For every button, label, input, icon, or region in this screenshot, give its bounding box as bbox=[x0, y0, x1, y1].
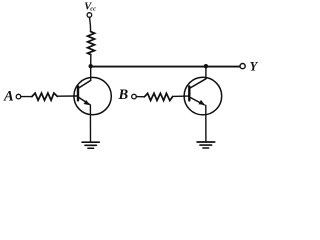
svg-text:cc: cc bbox=[90, 5, 96, 12]
svg-text:Y: Y bbox=[250, 59, 259, 73]
svg-text:B: B bbox=[118, 87, 129, 103]
svg-text:A: A bbox=[3, 89, 14, 105]
